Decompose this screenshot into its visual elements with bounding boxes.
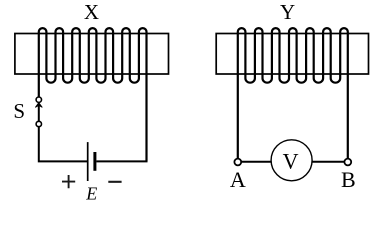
coil X winding L1 (39, 28, 147, 161)
voltmeter V body (circle) (271, 140, 312, 181)
label + (battery positive) (62, 175, 75, 188)
wire: battery to right riser of coil X (96, 160, 147, 162)
coil X core (iron core rectangle) (15, 34, 169, 75)
label − (battery negative) (108, 181, 121, 183)
coil Y winding L2 (238, 28, 348, 158)
battery E negative plate (short thick) (93, 152, 96, 171)
svg-text:E: E (85, 183, 97, 203)
wire: switch S down-left to bottom rail (39, 127, 87, 162)
svg-text:V: V (283, 149, 299, 174)
battery E positive plate (long) (87, 142, 89, 181)
wire: terminal A to voltmeter (241, 161, 271, 163)
switch S bottom contact (open circle) (36, 121, 41, 126)
svg-text:X: X (84, 0, 99, 24)
wire: voltmeter to terminal B (312, 161, 344, 163)
terminal B (open circle) (344, 159, 351, 166)
svg-text:A: A (230, 167, 246, 192)
svg-text:S: S (13, 99, 25, 123)
switch S blade arrowhead (35, 103, 42, 108)
switch S top contact (open circle) (36, 97, 41, 102)
svg-text:Y: Y (280, 0, 295, 24)
switch S blade (upward arrow) shaft (38, 105, 40, 122)
coil Y core (iron core rectangle) (216, 34, 368, 75)
terminal A (open circle) (234, 159, 241, 166)
svg-text:B: B (341, 167, 356, 192)
